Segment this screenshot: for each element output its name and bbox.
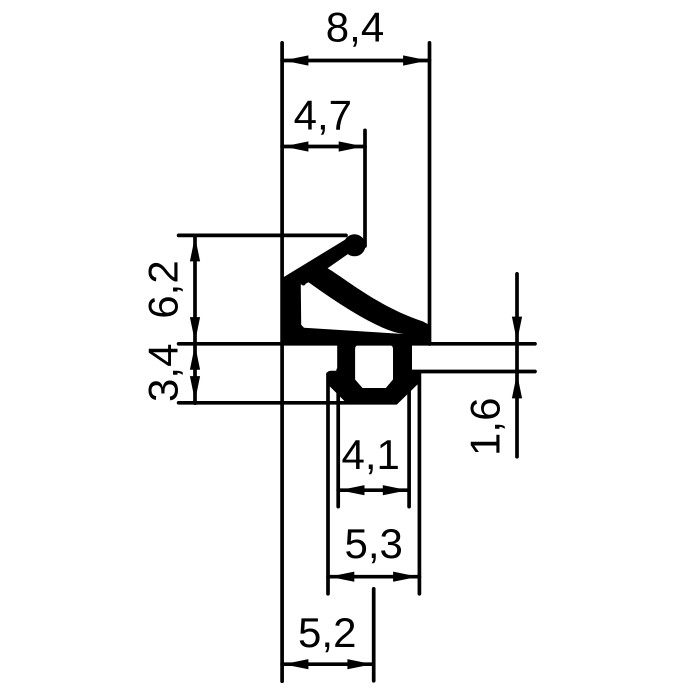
- arrow 6,2 top: [190, 236, 200, 261]
- arrow 5,2 right: [347, 659, 372, 669]
- extension line right (4,7): [363, 130, 367, 246]
- svg-text:1,6: 1,6: [462, 398, 509, 456]
- dimension line 4,1: [338, 488, 409, 492]
- svg-text:5,3: 5,3: [345, 520, 403, 567]
- dimension line vertical left (6,2 / 3,4): [193, 235, 197, 403]
- svg-text:6,2: 6,2: [140, 260, 187, 318]
- arrow 5,3 right: [393, 572, 418, 582]
- svg-text:8,4: 8,4: [326, 3, 384, 50]
- seal profile upper body: lip, curved sealing lip, wall and base arm: [283, 239, 430, 345]
- extension line left (5,3): [326, 374, 330, 594]
- arrow 1,6 bottom (outside, pointing up): [512, 373, 522, 398]
- arrow 1,6 top (outside, pointing down): [512, 317, 522, 342]
- arrow 3,4 bottom: [190, 376, 200, 401]
- arrow 4,7 right: [339, 141, 364, 151]
- dimension line vertical (1,6): [515, 274, 519, 457]
- extension line right (4,1): [407, 370, 411, 507]
- arrow 8,4 left: [283, 55, 308, 65]
- seal profile foot (hollow chamber with side wings): [327, 343, 420, 404]
- extension line left (8,4 / 5,2): [280, 43, 284, 681]
- arrow 8,4 right: [403, 55, 428, 65]
- dimension line 5,2: [282, 662, 374, 666]
- extension line right (5,2): [372, 589, 376, 681]
- arrow 4,1 left: [340, 485, 365, 495]
- arrow 5,3 left: [329, 572, 354, 582]
- arrow 6,2 bottom: [190, 317, 200, 342]
- svg-text:3,4: 3,4: [140, 344, 187, 402]
- dimension line 4,7: [282, 145, 365, 149]
- dimension line 8,4: [282, 59, 429, 63]
- arrow 4,1 right: [383, 485, 408, 495]
- extension line bottom (3,4): [179, 401, 396, 405]
- extension line right (5,3): [418, 372, 422, 594]
- arrow 4,7 left: [283, 141, 308, 151]
- svg-text:5,2: 5,2: [298, 609, 356, 656]
- extension line left (4,1): [336, 370, 340, 507]
- arrow 5,2 left: [283, 659, 308, 669]
- extension line middle (6,2 / 3,4 / 1,6 top): [179, 342, 535, 346]
- svg-text:4,7: 4,7: [294, 91, 352, 138]
- extension line (1,6 bottom): [412, 370, 535, 374]
- extension line right (8,4): [428, 43, 432, 344]
- dimension line 5,3: [328, 575, 419, 579]
- svg-text:4,1: 4,1: [342, 431, 400, 478]
- extension line top (6,2): [179, 234, 346, 238]
- arrow 3,4 top: [190, 345, 200, 370]
- seal profile knob (round bead at top): [344, 234, 366, 256]
